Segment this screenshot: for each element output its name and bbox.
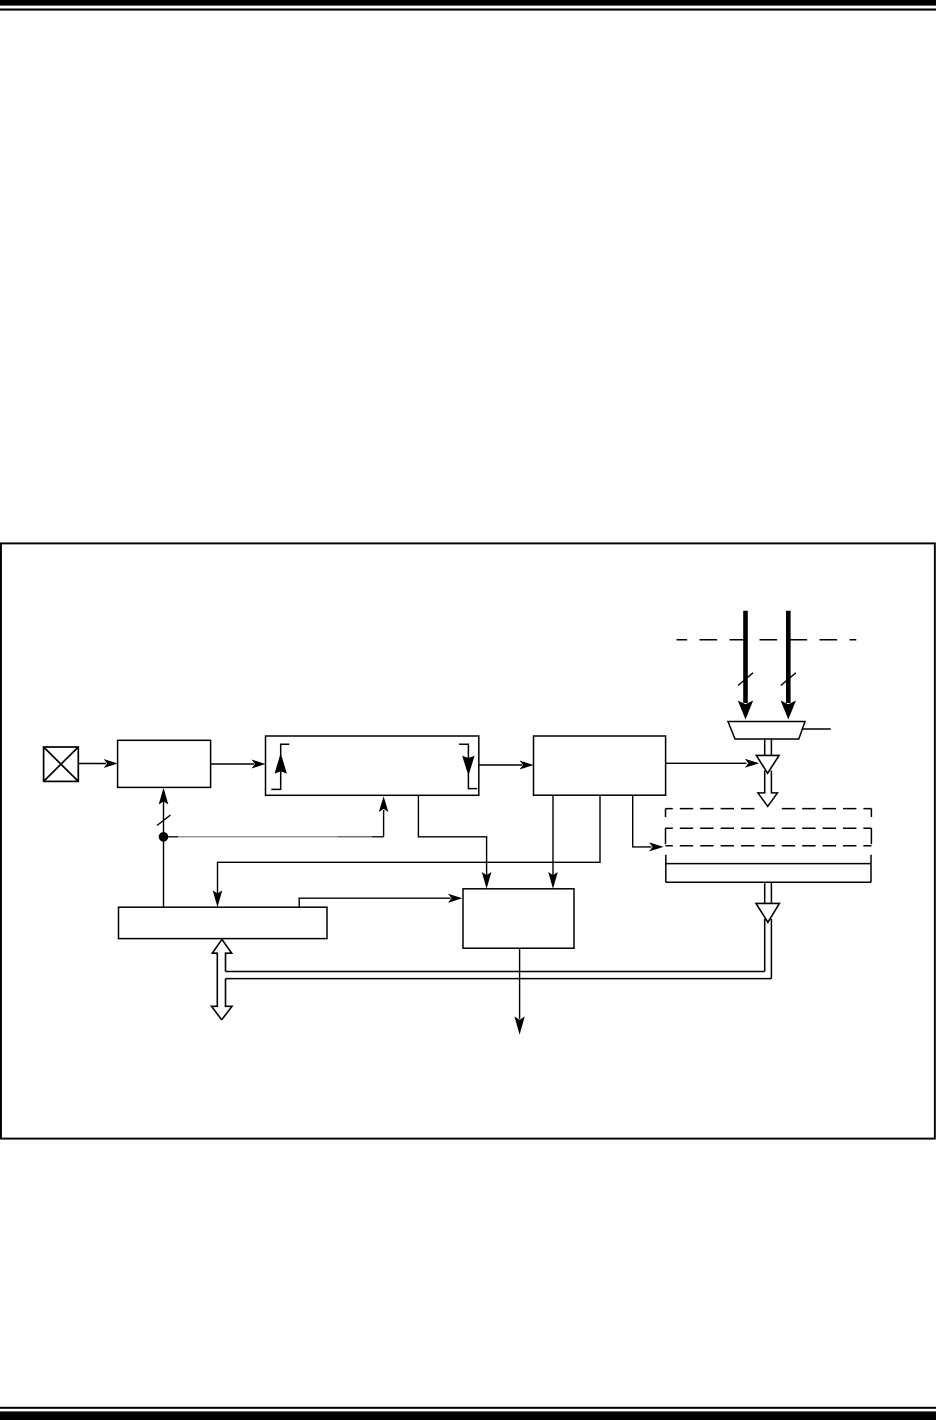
open buffer triangle T2	[756, 903, 779, 922]
bus arrow D1 (bold) with width slash	[738, 611, 753, 720]
falling-edge symbol inside B2	[459, 744, 477, 788]
hollow link M1 to T1	[765, 739, 772, 755]
block B4	[119, 907, 328, 938]
hollow link R2 to T2	[765, 882, 772, 903]
wire B1 to B2 with arrow	[211, 760, 266, 769]
pin X1 (crossed-box input pad)	[44, 747, 79, 781]
bus arrow D2 (bold) with width slash	[781, 611, 796, 720]
mux select stub	[802, 728, 831, 730]
register R2 (solid box)	[666, 855, 871, 883]
block B2 (edge detect)	[266, 736, 479, 795]
bidirectional hollow arrow below B4	[212, 939, 233, 1019]
block B3	[534, 736, 666, 795]
hollow arrow into register R1	[758, 771, 778, 807]
wire B2 to B3 with arrow	[479, 761, 534, 770]
wire B4 to B5 left with arrow	[299, 894, 462, 908]
wire B4 to B1 vertical with arrow, slash, junction node N1	[157, 788, 171, 907]
rising-edge symbol inside B2	[271, 744, 289, 789]
open buffer triangle T1	[756, 755, 779, 773]
wire B5 output arrow down	[514, 948, 524, 1034]
block B5	[463, 889, 574, 948]
register R1 (dashed box, two rows)	[665, 809, 871, 846]
wire B2 bottom to B5 top with arrow	[418, 795, 491, 889]
wire B3 to R1 with arrow	[633, 795, 664, 851]
hollow bus wire T2 to data-bus tee	[226, 919, 772, 979]
internal data bus (dashed)	[677, 639, 857, 641]
wire pin X1 to block B1 with arrow	[78, 759, 117, 768]
mux M1	[728, 722, 805, 740]
block B1	[118, 740, 211, 787]
wire N1 to B2 bottom with arrow	[164, 796, 389, 837]
wire B3 bottom to B4 top with arrow	[213, 795, 600, 907]
wire B3 bottom to B5 top with arrow	[548, 795, 558, 889]
wire B3 to buffer T1 with arrow	[666, 759, 760, 768]
